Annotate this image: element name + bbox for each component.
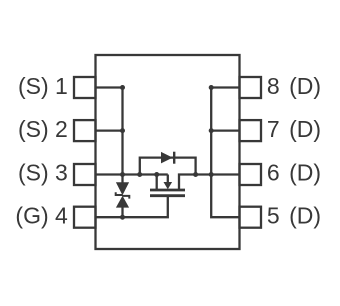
svg-text:5 (D): 5 (D) xyxy=(267,203,321,229)
svg-text:(S) 2: (S) 2 xyxy=(18,116,68,142)
svg-text:(S) 3: (S) 3 xyxy=(18,160,68,186)
svg-text:7 (D): 7 (D) xyxy=(267,116,321,142)
svg-text:(G) 4: (G) 4 xyxy=(15,203,68,229)
svg-text:6 (D): 6 (D) xyxy=(267,160,321,186)
svg-text:(S) 1: (S) 1 xyxy=(18,73,68,99)
svg-text:8 (D): 8 (D) xyxy=(267,73,321,99)
